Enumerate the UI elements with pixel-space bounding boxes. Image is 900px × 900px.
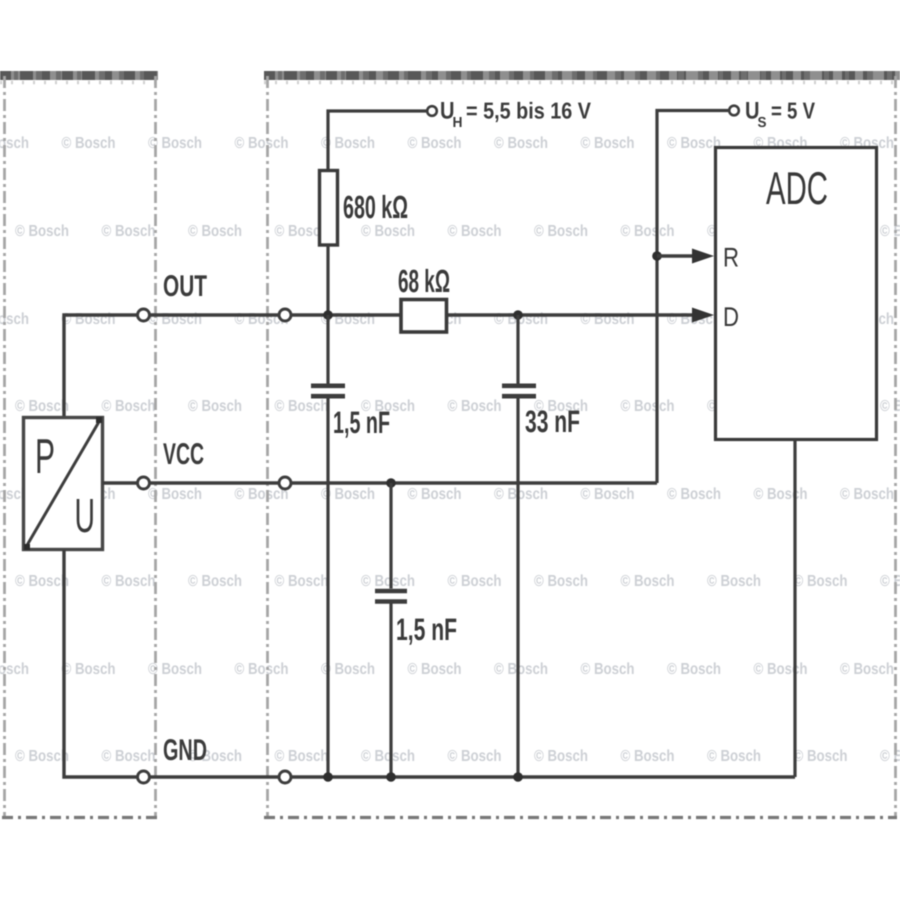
svg-text:© Bosch: © Bosch: [754, 486, 808, 503]
label U_S = 5 V: [745, 98, 816, 132]
svg-text:© Bosch: © Bosch: [448, 223, 502, 240]
terminal U_H: [427, 106, 437, 116]
svg-text:© Bosch: © Bosch: [188, 398, 242, 415]
op-amp/converter U1 ADC box: [716, 148, 877, 440]
wire: C3 top lead: [389, 483, 392, 589]
svg-text:© Bosch: © Bosch: [448, 398, 502, 415]
pin: GND sensor connector: [138, 771, 150, 783]
ECU boundary (dashed box, right): [264, 76, 900, 819]
svg-text:© Bosch: © Bosch: [880, 223, 900, 240]
svg-text:ADC: ADC: [766, 162, 828, 214]
svg-text:= 5 V: = 5 V: [771, 98, 816, 124]
svg-text:© Bosch: © Bosch: [621, 223, 675, 240]
svg-text:© Bosch: © Bosch: [840, 486, 894, 503]
wire: C1 top lead: [326, 315, 329, 384]
sensor element P/U box: [24, 418, 103, 550]
svg-text:© Bosch: © Bosch: [408, 486, 462, 503]
Bosch watermark background: [0, 135, 900, 765]
svg-text:© Bosch: © Bosch: [667, 486, 721, 503]
wire: U_H supply from terminal to resistor 680k: [328, 111, 427, 171]
svg-text:© Bosch: © Bosch: [188, 223, 242, 240]
svg-text:R: R: [723, 243, 739, 273]
svg-text:© Bosch: © Bosch: [534, 573, 588, 590]
corner mark bottom-left: [24, 544, 30, 550]
svg-text:© Bosch: © Bosch: [361, 748, 415, 765]
svg-text:© Bosch: © Bosch: [494, 135, 548, 152]
svg-text:© Bosch: © Bosch: [62, 661, 116, 678]
svg-text:© Bosch: © Bosch: [235, 135, 289, 152]
svg-text:1,5 nF: 1,5 nF: [396, 612, 457, 647]
svg-text:© Bosch: © Bosch: [581, 135, 635, 152]
pin: OUT ECU connector: [279, 309, 291, 321]
wire: C3 bottom lead to GND: [389, 604, 392, 778]
node: supply riser / R-line junction: [652, 251, 662, 261]
svg-text:© Bosch: © Bosch: [448, 573, 502, 590]
svg-text:© Bosch: © Bosch: [880, 573, 900, 590]
terminal U_S: [729, 106, 739, 116]
arrowhead: D input of ADC: [692, 308, 714, 323]
svg-text:P: P: [35, 430, 55, 484]
node: GND / C1 junction: [323, 772, 333, 782]
svg-text:© Bosch: © Bosch: [15, 223, 69, 240]
svg-text:U: U: [75, 490, 96, 543]
svg-text:© Bosch: © Bosch: [361, 223, 415, 240]
svg-text:VCC: VCC: [163, 438, 204, 471]
svg-text:© Bosch: © Bosch: [15, 398, 69, 415]
svg-text:© Bosch: © Bosch: [15, 748, 69, 765]
svg-text:H: H: [453, 115, 463, 131]
wire: supply riser from VCC to U_S terminal: [657, 111, 729, 484]
svg-text:© Bosch: © Bosch: [581, 661, 635, 678]
svg-text:© Bosch: © Bosch: [62, 135, 116, 152]
resistor R1 680 kOhm: [320, 171, 338, 246]
svg-text:© Bosch: © Bosch: [102, 748, 156, 765]
resistor R2 68 kOhm: [401, 300, 447, 333]
svg-text:© Bosch: © Bosch: [102, 223, 156, 240]
svg-text:© Bosch: © Bosch: [275, 573, 329, 590]
wire: C1 bottom lead to GND (crosses VCC): [326, 399, 329, 778]
svg-text:33 nF: 33 nF: [525, 404, 580, 439]
svg-text:© Bosch: © Bosch: [494, 661, 548, 678]
node: VCC / C3 junction: [386, 478, 396, 488]
wire: R reference line into ADC: [657, 254, 694, 257]
svg-text:© Bosch: © Bosch: [667, 661, 721, 678]
node: GND / C3 junction: [386, 772, 396, 782]
svg-text:© Bosch: © Bosch: [707, 573, 761, 590]
svg-text:© Bosch: © Bosch: [707, 748, 761, 765]
svg-text:© Bosch: © Bosch: [448, 748, 502, 765]
svg-text:© Bosch: © Bosch: [794, 748, 848, 765]
svg-text:© Bosch: © Bosch: [188, 573, 242, 590]
label U_H = 5,5 bis 16 V: [440, 98, 592, 132]
wire: C2 top lead: [516, 315, 519, 384]
pin: VCC sensor connector: [138, 477, 150, 489]
svg-text:© Bosch: © Bosch: [494, 486, 548, 503]
svg-text:© Bosch: © Bosch: [102, 573, 156, 590]
pin: OUT sensor connector: [138, 309, 150, 321]
svg-text:© Bosch: © Bosch: [275, 748, 329, 765]
svg-text:© Bosch: © Bosch: [880, 748, 900, 765]
sensor boundary (dashed box, left): [0, 76, 158, 819]
wire: C2 bottom lead to GND (crosses VCC): [516, 399, 519, 778]
svg-text:© Bosch: © Bosch: [361, 573, 415, 590]
node: GND / C2 junction: [513, 772, 523, 782]
svg-text:© Bosch: © Bosch: [754, 661, 808, 678]
svg-text:GND: GND: [163, 734, 207, 767]
corner mark top-right: [96, 417, 102, 423]
svg-text:= 5,5 bis 16 V: = 5,5 bis 16 V: [466, 98, 592, 124]
svg-text:© Bosch: © Bosch: [408, 661, 462, 678]
svg-text:© Bosch: © Bosch: [534, 223, 588, 240]
svg-text:© Bosch: © Bosch: [667, 135, 721, 152]
svg-text:© Bosch: © Bosch: [534, 748, 588, 765]
svg-text:68 kΩ: 68 kΩ: [398, 263, 450, 299]
pin: VCC ECU connector: [279, 477, 291, 489]
diagonal of sensor box: [26, 420, 100, 547]
svg-text:© Bosch: © Bosch: [794, 573, 848, 590]
svg-text:© Bosch: © Bosch: [15, 573, 69, 590]
svg-text:OUT: OUT: [163, 270, 207, 303]
svg-text:S: S: [758, 115, 767, 131]
pin: GND ECU connector: [279, 771, 291, 783]
node: D line / C2 junction: [513, 310, 523, 320]
capacitor C2 33 nF (D line to GND): [502, 386, 536, 396]
svg-text:© Bosch: © Bosch: [840, 661, 894, 678]
svg-text:© Bosch: © Bosch: [275, 398, 329, 415]
svg-text:© Bosch: © Bosch: [621, 573, 675, 590]
svg-text:© Bosch: © Bosch: [621, 748, 675, 765]
svg-text:© Bosch: © Bosch: [880, 398, 900, 415]
svg-text:680 kΩ: 680 kΩ: [343, 189, 408, 225]
svg-text:© Bosch: © Bosch: [621, 398, 675, 415]
wire: OUT / D signal line: [64, 315, 694, 417]
svg-text:D: D: [723, 302, 739, 332]
svg-text:© Bosch: © Bosch: [581, 486, 635, 503]
wire: GND line: [64, 550, 795, 777]
node: OUT / R1 / C1 junction: [323, 310, 333, 320]
svg-text:© Bosch: © Bosch: [408, 135, 462, 152]
wire: ADC ground lead: [793, 440, 796, 778]
capacitor C1 1,5 nF (OUT to GND): [311, 386, 345, 396]
svg-text:© Bosch: © Bosch: [235, 661, 289, 678]
svg-text:© Bosch: © Bosch: [102, 398, 156, 415]
wire: resistor R1 bottom to OUT node: [326, 245, 329, 315]
arrowhead: R input of ADC: [692, 249, 714, 264]
wire: VCC line from sensor to supply riser: [103, 481, 658, 484]
svg-text:1,5 nF: 1,5 nF: [333, 405, 390, 440]
